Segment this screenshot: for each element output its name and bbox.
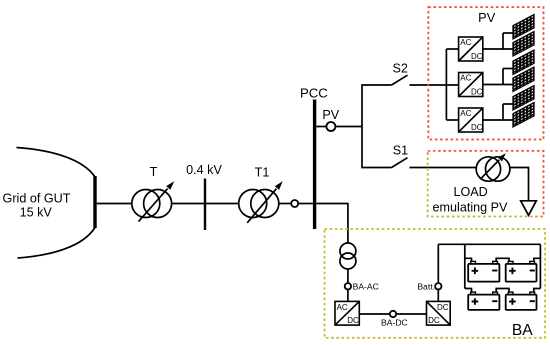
wire: DC/DC converter up to Batt node (437, 290, 439, 302)
LOAD emulating PV dashed box (428, 151, 544, 217)
svg-text:DC: DC (471, 52, 483, 61)
svg-text:DC: DC (428, 316, 440, 325)
svg-text:15 kV: 15 kV (20, 205, 53, 219)
wire: AC/DC to BA-DC node (359, 313, 390, 315)
wire: BA-DC node to DC/DC converter (396, 313, 426, 315)
wire: T to 0.4kV busbar to T1 (172, 203, 239, 205)
transformer T1 (239, 181, 283, 223)
wire: switch branch vertical (361, 85, 363, 168)
battery B3 (468, 292, 499, 310)
svg-text:T: T (150, 165, 158, 179)
converter AC/DC 1 (459, 37, 483, 61)
svg-text:T1: T1 (255, 166, 270, 180)
PV panel 2b (513, 67, 534, 92)
PV subsystem dashed box (428, 7, 543, 139)
svg-text:S1: S1 (393, 144, 408, 158)
switch S1 (361, 158, 476, 168)
svg-text:DC: DC (347, 316, 359, 325)
svg-text:0.4 kV: 0.4 kV (186, 163, 222, 177)
wire: load transformer to arrow terminal (510, 168, 529, 201)
label Grid of GUT 15 kV (3, 192, 71, 220)
svg-text:Batt.: Batt. (417, 281, 435, 291)
node: T1 output measurement circle (291, 200, 298, 207)
wire: collector stub to converter 3 (446, 119, 458, 121)
wire: battery bank top rail (438, 243, 540, 245)
wire: Batt node up to battery bank (437, 244, 439, 283)
svg-text:DC: DC (471, 123, 483, 132)
label LOAD emulating PV (433, 185, 509, 215)
grid busbar (93, 176, 96, 228)
svg-text:LOAD: LOAD (453, 185, 487, 199)
busbar PCC (313, 100, 316, 230)
PV panel 3a (513, 85, 534, 110)
wire: right bridge row2 (534, 289, 541, 293)
svg-text:Grid of GUT: Grid of GUT (3, 192, 71, 206)
PV panel 1b (513, 31, 534, 56)
wire: battery bank right drop (539, 244, 541, 288)
svg-text:AC: AC (460, 38, 471, 47)
wire: right bridge row1 (534, 258, 541, 261)
wire: converter 2 to panel pair 2 (483, 69, 513, 85)
wire: PCC busbar to PV node (316, 126, 326, 128)
svg-text:AC: AC (460, 74, 471, 83)
svg-text:AC: AC (337, 303, 348, 312)
battery B1 (468, 261, 499, 281)
svg-text:BA-AC: BA-AC (353, 281, 379, 291)
converter BA AC/DC (335, 301, 359, 325)
wire: left bridge row1 (465, 258, 472, 261)
node Batt (435, 283, 441, 289)
svg-text:DC: DC (471, 88, 483, 97)
svg-text:BA-DC: BA-DC (381, 318, 408, 328)
wire: converter 1 to panel pair 1 (483, 33, 513, 49)
wire: middle bridge row1 (496, 258, 509, 261)
battery B2 (506, 261, 537, 281)
wire: PCC busbar to battery branch (316, 204, 348, 244)
converter AC/DC 3 (459, 108, 483, 132)
node BA-AC (345, 283, 351, 289)
wire: BA transformer to BA-AC node (347, 269, 349, 283)
svg-text:S2: S2 (392, 62, 407, 76)
switch S2 (361, 75, 458, 85)
wire: PV node to switch branch (335, 126, 362, 128)
wire: converter 3 to panel pair 3 (483, 104, 513, 120)
BA transformer (340, 243, 356, 269)
BA dashed box (325, 229, 546, 338)
PV panel 1a (513, 14, 534, 39)
node PV measurement circle (326, 122, 335, 131)
wire: T1 to measurement node (279, 203, 291, 205)
grid arc (Grid of GUT source symbol) (17, 148, 96, 259)
load transformer (variable) (476, 153, 510, 181)
svg-text:AC: AC (460, 109, 471, 118)
svg-text:emulating PV: emulating PV (433, 201, 509, 215)
wire: BA-AC node to AC/DC converter (347, 290, 349, 302)
wire: left bridge row2 (465, 289, 472, 293)
PV panel 3b (513, 102, 534, 127)
wire: grid busbar to transformer T (97, 203, 132, 205)
busbar 0.4 kV (204, 179, 206, 231)
wire: PV collector vertical (445, 49, 447, 120)
svg-text:PCC: PCC (300, 85, 328, 100)
wire: middle bridge row2 (496, 289, 509, 293)
wire: node to PCC busbar (298, 203, 313, 205)
transformer T (132, 181, 174, 221)
svg-text:DC: DC (437, 303, 449, 312)
converter BA DC/DC (427, 301, 451, 325)
svg-text:PV: PV (322, 108, 339, 122)
node BA-DC (390, 311, 396, 317)
PV panel 2a (513, 50, 534, 75)
wire: battery bank left drop (464, 244, 466, 288)
svg-text:BA: BA (512, 322, 533, 339)
load arrow terminal (triangle) (521, 201, 537, 216)
battery B4 (506, 292, 537, 310)
wire: collector stub to converter 1 (446, 48, 458, 50)
converter AC/DC 2 (459, 73, 483, 97)
svg-text:PV: PV (478, 10, 496, 25)
